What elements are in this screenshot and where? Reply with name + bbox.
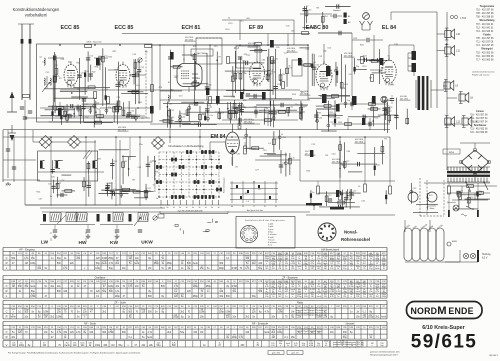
svg-text:70: 70 [122,286,125,288]
svg-text:henk: henk [291,289,295,291]
svg-text:500: 500 [172,345,177,347]
svg-text:47: 47 [285,266,287,268]
svg-text:C44: C44 [318,117,323,119]
svg-text:8µ: 8µ [38,311,41,313]
cluster el84 right [372,107,374,127]
black cap near Fi2 [270,40,274,48]
wire EF89 anode [256,44,258,59]
svg-text:L4: L4 [258,189,261,191]
tuning gang diamond 1 [39,136,52,149]
svg-text:4,7k: 4,7k [317,345,321,347]
svg-text:R14: R14 [375,118,380,120]
svg-text:0,1: 0,1 [298,282,301,284]
svg-text:1n: 1n [287,345,289,347]
svg-text:100p: 100p [18,330,23,332]
svg-text:5n: 5n [50,196,53,198]
svg-text:R3: R3 [145,52,149,54]
resistor R14 [209,97,212,104]
antenna input lines [21,24,23,100]
svg-text:330: 330 [88,343,92,345]
wire HT B+ rail [307,45,309,100]
svg-text:330: 330 [103,345,108,347]
svg-text:KW: KW [110,240,118,246]
svg-text:C31: C31 [274,58,279,60]
cluster mid gap [169,109,171,128]
svg-text:50µ: 50µ [180,332,185,334]
svg-text:1k: 1k [64,258,67,260]
wire rect top [474,143,476,148]
wire row y124 right [332,123,390,125]
svg-text:120: 120 [324,296,327,298]
svg-text:4a: 4a [173,207,175,209]
matrix right block [231,181,233,203]
black blobs extra [206,88,209,95]
svg-text:1k: 1k [363,289,365,291]
KW coil [113,213,123,222]
svg-text:100p: 100p [310,284,314,286]
svg-text:Drucktastenaggregat: Drucktastenaggregat [154,173,157,192]
svg-text:ECC85: ECC85 [437,225,443,230]
svg-text:0,5M: 0,5M [226,315,231,317]
wire band switch row [38,171,104,173]
svg-text:8µ: 8µ [28,345,31,347]
svg-text:0,1: 0,1 [83,330,87,332]
svg-text:10n: 10n [226,335,229,337]
volume pot bar 1 [306,203,322,206]
svg-text:EL 84: EL 84 [382,25,396,31]
svg-text:707 - 410 941 01: 707 - 410 941 01 [476,24,494,26]
svg-text:22k: 22k [187,266,190,268]
netz switch circle [453,205,459,211]
svg-text:100p: 100p [219,268,225,270]
table band frame [3,321,387,323]
svg-text:717 - 410 960 08: 717 - 410 960 08 [476,59,494,61]
svg-text:L4: L4 [247,201,250,203]
svg-text:100p: 100p [19,345,25,347]
wire left vert 1 [94,140,96,205]
svg-text:1k: 1k [285,287,287,289]
wire EL84 anode to OT [388,45,390,60]
svg-text:8µ: 8µ [330,317,333,319]
svg-text:Sockelanschluß der Klangtast: Sockelanschluß der Klangtasten [245,219,286,222]
svg-text:2k2: 2k2 [272,268,275,270]
svg-text:5n: 5n [142,337,145,339]
svg-text:330: 330 [240,345,245,347]
svg-text:120: 120 [362,317,367,319]
table band frame [3,247,387,249]
svg-text:henk: henk [323,284,327,286]
cluster band right [175,224,178,226]
svg-text:500: 500 [24,311,29,313]
svg-text:ECC 85: ECC 85 [115,25,134,31]
svg-text:0,5M: 0,5M [43,311,48,313]
svg-text:22k: 22k [297,317,302,319]
svg-text:8µ: 8µ [291,317,294,319]
svg-text:C52: C52 [253,107,258,109]
UKW coil [138,213,148,222]
svg-text:1n: 1n [70,286,73,288]
svg-text:8µ: 8µ [83,332,86,334]
svg-text:1M: 1M [311,296,314,298]
svg-text:22k: 22k [343,296,346,298]
svg-text:R7: R7 [168,82,172,84]
svg-text:x: x [266,263,267,265]
motor M1 [427,192,437,202]
svg-text:1M: 1M [278,261,281,263]
heater connector bar [477,250,479,262]
cathode cap C41 [390,98,394,100]
svg-text:0,1: 0,1 [325,345,328,347]
svg-text:0,1: 0,1 [291,291,294,293]
svg-text:22k: 22k [90,309,93,311]
svg-text:10n: 10n [330,332,335,334]
svg-text:B: B [242,206,244,208]
svg-text:x: x [97,266,98,268]
svg-text:R22: R22 [92,72,97,74]
svg-text:500: 500 [128,311,133,313]
svg-text:70: 70 [266,282,268,284]
svg-text:15k: 15k [356,296,359,298]
wire mid horizontal 4 [3,179,40,181]
svg-text:1M: 1M [291,311,294,313]
svg-text:22k: 22k [76,258,81,260]
svg-text:C52: C52 [327,47,332,49]
svg-text:henk: henk [369,294,373,296]
svg-text:C44: C44 [308,10,313,12]
cluster fill upper mid extra [234,51,236,93]
wire top small bus right [318,32,352,34]
resistor R4 [107,97,110,104]
svg-text:C27: C27 [255,170,260,172]
svg-text:x: x [84,317,86,319]
svg-text:0,5M: 0,5M [278,259,283,261]
svg-text:C27: C27 [39,199,44,201]
svg-text:47: 47 [376,263,378,265]
svg-text:70: 70 [135,311,138,313]
svg-text:x: x [280,345,281,347]
tube V7 EM84 magic eye envelope [226,132,240,154]
svg-text:B250: B250 [449,152,455,154]
EM84 wiring [231,157,233,165]
svg-text:1M: 1M [363,256,366,258]
svg-text:0,5M: 0,5M [309,345,314,347]
svg-text:0,5M: 0,5M [108,332,113,334]
svg-text:4,7k: 4,7k [102,284,106,286]
svg-text:2k2: 2k2 [294,345,297,347]
svg-text:47: 47 [51,337,54,339]
svg-text:1M: 1M [44,317,47,319]
svg-text:Caruso: Caruso [476,111,485,113]
svg-text:250p: 250p [44,315,49,317]
svg-text:500: 500 [350,258,353,260]
cluster EM84 right [245,128,247,152]
svg-text:R14: R14 [292,94,297,96]
svg-text:2k2: 2k2 [167,332,171,334]
resistor Rt1 [317,186,320,194]
svg-text:4a: 4a [211,207,213,209]
svg-text:10n: 10n [324,287,327,289]
svg-text:4,7k: 4,7k [271,284,275,286]
svg-text:50µ: 50µ [57,258,62,260]
svg-text:4,7k: 4,7k [193,284,197,286]
svg-text:1M: 1M [278,284,281,286]
svg-text:x: x [377,294,378,296]
svg-text:2k2: 2k2 [102,311,106,313]
svg-text:Netzschalt.: Netzschalt. [447,201,456,204]
ground symbol left [11,125,13,133]
svg-text:henk: henk [245,256,249,258]
svg-text:LW: LW [41,240,49,246]
svg-text:250p: 250p [382,296,386,298]
svg-text:250p: 250p [356,282,360,284]
svg-text:0,5M: 0,5M [304,264,309,266]
svg-text:R22: R22 [381,68,386,70]
svg-text:120: 120 [96,258,101,260]
svg-text:1M: 1M [324,266,327,268]
switch S2 [484,182,488,190]
svg-text:5n: 5n [298,258,300,260]
svg-text:5n: 5n [20,343,22,345]
svg-text:1M: 1M [148,268,151,270]
svg-text:C27: C27 [330,122,335,124]
svg-text:0,5M: 0,5M [317,292,322,294]
speaker L11 [445,47,451,54]
svg-text:705 - 410 297 08: 705 - 410 297 08 [476,38,494,40]
svg-text:50µ: 50µ [129,261,133,263]
resistor R12 [227,57,230,64]
svg-text:C31: C31 [137,167,142,169]
svg-text:Drucktasten in Ruhestellung: Drucktasten in Ruhestellung [169,144,204,148]
svg-text:Ruhestellung gez.: Ruhestellung gez. [223,177,226,193]
svg-text:50µ: 50µ [119,345,124,347]
cluster kw gap [145,184,147,200]
cluster band lower [53,180,55,193]
wire row y108b [100,107,150,109]
svg-text:70: 70 [383,256,385,258]
svg-text:15k: 15k [343,259,346,261]
resistor Rt3 [364,184,367,192]
svg-text:4,7k: 4,7k [174,286,179,288]
svg-text:1k: 1k [257,343,259,345]
speaker feed top [391,11,437,13]
coil pack box [38,151,98,181]
resistor R6 [145,45,152,48]
svg-text:1M: 1M [291,284,294,286]
svg-text:Fidelio: Fidelio [483,34,491,36]
push-button switch matrix grid [159,151,219,153]
svg-text:10n: 10n [382,287,385,289]
switch contact pairs in matrix [186,150,188,154]
svg-text:C44: C44 [42,62,47,64]
svg-text:R19: R19 [363,66,368,68]
svg-text:120: 120 [363,292,366,294]
svg-text:250p: 250p [128,284,133,286]
cluster tone [310,190,312,204]
svg-text:1n: 1n [298,268,300,270]
svg-text:15k: 15k [57,330,60,332]
svg-text:100p: 100p [193,286,199,288]
svg-text:4a: 4a [192,207,194,209]
svg-text:1k: 1k [325,343,327,345]
svg-text:70: 70 [298,286,300,288]
svg-text:5n: 5n [31,311,34,313]
wire spk drop2 [437,33,445,35]
svg-text:7: 7 [246,235,247,237]
svg-text:0,5M: 0,5M [323,256,328,258]
svg-text:500: 500 [57,291,62,293]
svg-text:4,7k: 4,7k [310,263,314,265]
svg-text:4,7k: 4,7k [24,258,29,260]
svg-text:1M: 1M [200,332,203,334]
svg-text:250p: 250p [336,284,340,286]
svg-text:20p: 20p [68,62,72,64]
wire em84 link [199,129,201,150]
FM dipole symbol [361,25,363,30]
svg-text:C31: C31 [305,49,310,51]
svg-text:47: 47 [134,345,137,347]
svg-text:0,1: 0,1 [268,143,272,145]
svg-text:70: 70 [200,291,203,293]
svg-text:C44: C44 [196,78,201,80]
svg-text:EF 89: EF 89 [249,25,263,31]
svg-text:R: R [6,289,8,293]
svg-text:4,7k: 4,7k [265,286,269,288]
svg-text:22k: 22k [174,315,177,317]
svg-text:1k: 1k [181,263,184,265]
svg-text:x: x [84,268,86,270]
wire row y116 [55,115,145,117]
svg-text:0,1: 0,1 [363,311,367,313]
svg-text:C: C [6,256,8,260]
svg-text:Rheingold: Rheingold [481,49,493,51]
tube V3 ECH81 envelope (rounded square) [177,64,202,87]
svg-text:120: 120 [174,296,179,298]
svg-text:15k: 15k [285,263,288,265]
svg-text:15k: 15k [200,268,205,270]
svg-text:5n: 5n [44,286,47,288]
svg-text:7 braun: 7 braun [268,238,274,241]
svg-text:2k2: 2k2 [252,263,256,265]
resistor R41 [459,193,462,200]
svg-text:10n: 10n [272,264,275,266]
svg-text:1M: 1M [129,315,132,317]
heater bottom rail [405,261,460,263]
svg-text:0,1: 0,1 [174,291,178,293]
svg-text:C1a: C1a [139,144,144,146]
svg-text:70: 70 [207,289,210,291]
svg-text:x: x [234,284,235,286]
wire top cap row [300,13,332,15]
svg-text:0,1: 0,1 [369,284,372,286]
svg-text:1n: 1n [51,258,54,260]
svg-text:3: 3 [252,233,253,235]
speaker bus vertical 2 [446,12,448,170]
svg-text:1k: 1k [266,289,268,291]
svg-text:gem. 10%: gem. 10% [272,353,280,355]
AC wave symbol [461,214,467,216]
svg-text:1n: 1n [331,287,333,289]
svg-text:4a: 4a [179,207,181,209]
svg-text:2k2: 2k2 [38,266,42,268]
svg-text:20p: 20p [347,100,351,102]
cluster top right parts [304,6,306,30]
connector pair [450,15,453,18]
svg-text:C27: C27 [282,74,287,76]
svg-text:5n: 5n [156,198,159,200]
table footer boxes [268,351,284,355]
svg-text:x: x [305,284,306,286]
tube V4 EF89 envelope [250,62,265,84]
svg-text:70: 70 [239,268,242,270]
black cap C22 [322,94,327,103]
svg-text:100p: 100p [356,294,360,296]
svg-text:8µ: 8µ [161,311,164,313]
svg-text:100p: 100p [30,263,36,265]
IF transformer Fi1 dashed box [196,38,222,64]
svg-text:120: 120 [330,256,333,258]
svg-text:C31: C31 [170,110,175,112]
black cap right of EABC [352,96,357,105]
svg-text:C31: C31 [286,26,291,28]
svg-text:gemessen mit Heizspannung 6,3V: gemessen mit Heizspannung 6,3V bei [333,345,364,348]
svg-text:NF - Stufe: NF - Stufe [84,322,96,326]
tube V5 EABC80 envelope [316,64,332,88]
svg-text:120: 120 [258,263,263,265]
svg-text:15k: 15k [193,332,198,334]
tube V2 ECC85b envelope [116,65,130,86]
svg-text:Konstruktionsänderungen: Konstruktionsänderungen [13,7,60,12]
svg-text:4a: 4a [205,207,207,209]
svg-text:22k: 22k [252,311,257,313]
svg-text:5n: 5n [175,284,177,286]
svg-text:5n: 5n [245,73,248,75]
svg-text:L11: L11 [456,50,460,53]
svg-text:708 - 410 297 08: 708 - 410 297 08 [476,13,494,15]
svg-text:711 - 410 297 08: 711 - 410 297 08 [476,42,494,44]
IF transformer Fi2 dashed box [236,46,260,68]
svg-text:250p: 250p [265,258,269,260]
svg-text:330: 330 [350,284,353,286]
svg-text:2k2: 2k2 [50,317,54,319]
svg-text:70: 70 [279,289,281,291]
speaker L13 [462,118,468,125]
svg-text:4,7k: 4,7k [148,332,153,334]
wire lower bus left [25,204,170,206]
svg-text:500: 500 [219,263,224,265]
svg-text:L4: L4 [275,138,278,140]
resistor R13 [255,43,262,46]
svg-text:C31: C31 [48,183,53,185]
svg-text:0,1: 0,1 [226,258,230,260]
svg-text:C31: C31 [276,47,281,49]
svg-text:8µ: 8µ [148,291,151,293]
svg-text:10n: 10n [324,289,327,291]
svg-text:120: 120 [219,291,224,293]
tuning gang diamond 2 [68,136,81,149]
svg-text:70: 70 [256,345,259,347]
svg-text:henk: henk [264,332,270,334]
svg-text:70: 70 [285,317,288,319]
right block contacts [236,185,238,188]
svg-text:100p: 100p [368,317,374,319]
svg-text:10n: 10n [24,317,29,319]
svg-text:47: 47 [83,286,86,288]
svg-text:C15: C15 [263,150,268,152]
wire row y104 right [338,103,388,105]
wire mid partial bus 2 [25,117,150,119]
svg-text:330: 330 [18,286,23,288]
svg-text:R14: R14 [324,16,329,18]
